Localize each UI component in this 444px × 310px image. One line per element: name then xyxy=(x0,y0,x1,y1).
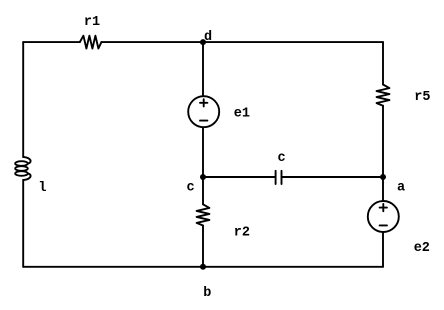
wire right (r5 to node a) xyxy=(382,106,384,177)
wire right (e2 to bottom corner) xyxy=(382,232,384,267)
svg-text:c: c xyxy=(187,181,195,196)
wire right (top corner to r5) xyxy=(382,42,384,84)
wire middle horizontal (node c to capacitor) xyxy=(203,176,276,178)
wire middle horizontal (capacitor to node a) xyxy=(282,176,384,178)
svg-text:e1: e1 xyxy=(234,107,250,122)
wire middle vertical (node c to r2) xyxy=(202,177,204,204)
wire top (node d to right corner) xyxy=(203,41,383,43)
resistor r1 xyxy=(80,36,102,49)
svg-text:a: a xyxy=(397,181,405,196)
wire bottom xyxy=(23,266,383,268)
node a junction dot xyxy=(380,174,386,180)
wire left (inductor to bottom corner) xyxy=(22,180,24,267)
wire middle vertical (node d to e1) xyxy=(202,42,204,96)
svg-text:c: c xyxy=(277,151,285,166)
node c junction dot xyxy=(200,174,206,180)
wire left (top corner to inductor) xyxy=(22,42,24,157)
wire top (r1 to node d) xyxy=(101,41,203,43)
wire middle vertical (r2 to node b) xyxy=(202,226,204,267)
resistor r2 xyxy=(197,204,210,225)
resistor r5 xyxy=(377,85,390,106)
svg-text:d: d xyxy=(204,30,212,45)
svg-text:r2: r2 xyxy=(234,226,250,241)
voltage source e1 xyxy=(188,96,219,127)
svg-text:l: l xyxy=(38,181,46,196)
svg-text:b: b xyxy=(203,286,211,301)
capacitor c xyxy=(276,171,282,184)
svg-text:r1: r1 xyxy=(84,15,100,30)
node d junction dot xyxy=(200,39,206,45)
voltage source e2 xyxy=(368,201,399,232)
wire right (node a to e2) xyxy=(382,177,384,201)
wire top (left corner to r1) xyxy=(23,41,80,43)
node b junction dot xyxy=(200,264,206,270)
svg-text:r5: r5 xyxy=(414,90,430,105)
svg-text:e2: e2 xyxy=(414,241,430,256)
inductor l xyxy=(23,157,30,164)
wire middle vertical (e1 to node c) xyxy=(202,127,204,177)
